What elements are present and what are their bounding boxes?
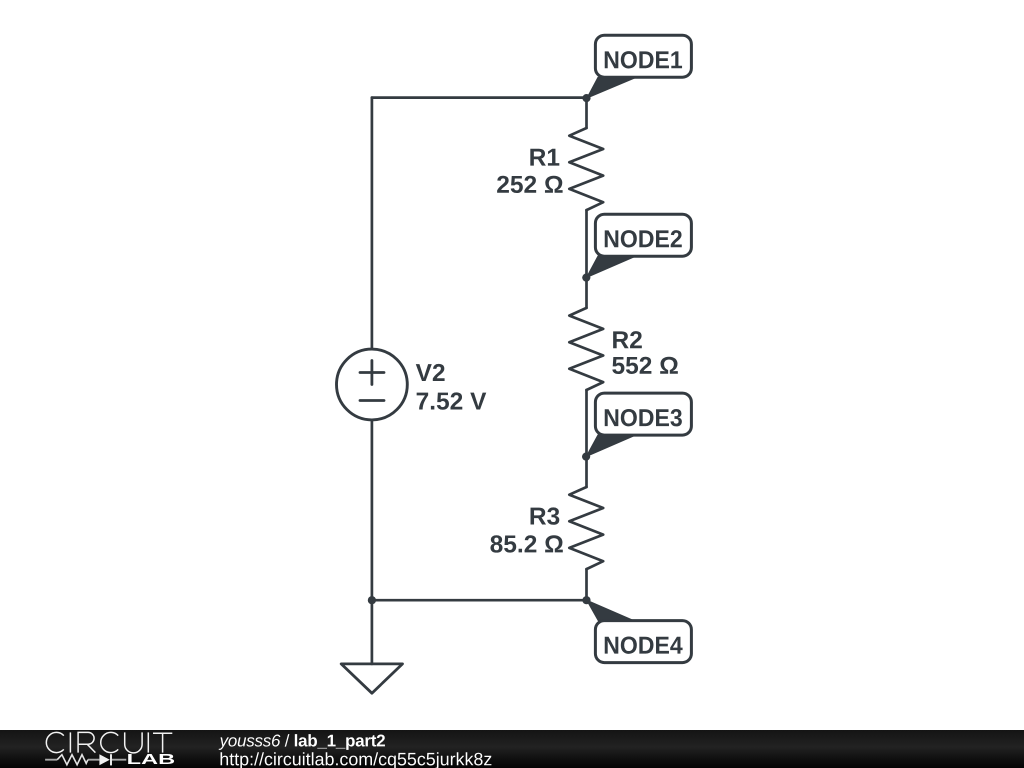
- label R1 value 252 ohm: [497, 176, 562, 193]
- resistor R3 zigzag: [569, 487, 603, 569]
- resistor R1 zigzag: [569, 128, 603, 210]
- NODE2 flag pointer: [586, 256, 636, 278]
- label R1 name: [530, 149, 559, 166]
- voltage source V2 circle: [337, 349, 408, 420]
- wire NODE3 to R3: [585, 457, 588, 487]
- junction dot ground net: [368, 596, 376, 604]
- voltage source minus sign: [360, 399, 384, 402]
- junction dot node NODE1: [582, 94, 590, 102]
- label V2 name: [416, 364, 445, 381]
- label V2 value 7.52 V: [417, 392, 487, 409]
- NODE1 label text: [605, 51, 682, 68]
- logo diode triangle: [99, 754, 109, 765]
- wire NODE2 to R2: [585, 278, 588, 308]
- NODE3 flag pointer: [586, 435, 636, 457]
- footer bar background: [0, 730, 1024, 768]
- junction dot node NODE3: [582, 453, 590, 461]
- wire R2 to NODE3: [585, 390, 588, 457]
- wire bottom horizontal: [372, 599, 587, 602]
- junction dot node NODE4: [582, 596, 590, 604]
- NODE2 label text: [605, 230, 682, 247]
- wire left vertical lower: [371, 420, 374, 600]
- wire top horizontal: [372, 96, 587, 99]
- label R2 value 552 ohm: [612, 357, 678, 374]
- NODE3 label text: [605, 409, 682, 426]
- NODE4 label text: [605, 636, 683, 653]
- ground stem wire: [371, 600, 374, 664]
- label R3 name: [531, 507, 560, 524]
- wire left vertical upper: [371, 98, 374, 350]
- ground triangle: [341, 664, 402, 693]
- logo word LAB: [128, 754, 174, 764]
- logo word CIRCUIT (thin drawn letters): [46, 732, 172, 753]
- logo resistor zigzag: [57, 755, 88, 765]
- wire R1 to NODE2: [585, 210, 588, 278]
- voltage source plus sign: [360, 361, 384, 385]
- logo lead wires: [45, 759, 126, 761]
- NODE4 flag pointer: [587, 600, 636, 621]
- NODE3 flag box: [595, 393, 691, 435]
- footer url line: [221, 752, 492, 768]
- logo diode cathode bar: [110, 754, 112, 765]
- resistor R2 zigzag: [569, 308, 603, 390]
- wire R3 to NODE4: [585, 569, 588, 600]
- junction dot node NODE2: [582, 274, 590, 282]
- wire right branch above R1: [585, 98, 588, 128]
- label R2 name: [613, 331, 642, 348]
- label R3 value 85.2 ohm: [490, 535, 562, 552]
- NODE1 flag pointer: [587, 77, 637, 98]
- footer title line yousss6 / lab_1_part2: [219, 735, 281, 750]
- NODE1 flag box: [595, 35, 691, 77]
- NODE4 flag box: [595, 621, 691, 663]
- NODE2 flag box: [595, 214, 691, 256]
